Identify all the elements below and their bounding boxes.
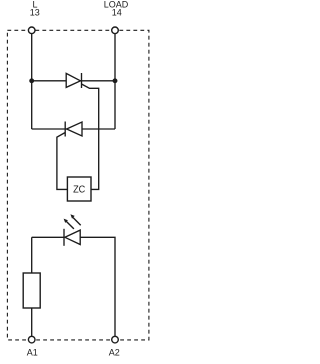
resistor R1 — [23, 273, 40, 308]
wire: resistor to terminal A1 — [31, 308, 33, 340]
wire: LED row right to A2 rail — [80, 237, 115, 339]
wire: left drop from LED row to resistor — [31, 237, 33, 273]
svg-text:ZC: ZC — [73, 183, 86, 195]
svg-text:A1: A1 — [27, 348, 38, 358]
enclosure dashed boundary — [7, 30, 149, 340]
LED emission arrow 2 — [70, 214, 80, 225]
svg-text:13: 13 — [30, 8, 40, 18]
wire: right rail from terminal 14 down to lower SCR row — [114, 30, 116, 129]
svg-text:14: 14 — [112, 8, 122, 18]
thyristor SCR1 (upper, pointing right) — [66, 73, 81, 88]
LED D1 (pointing left) — [64, 229, 80, 246]
terminal L/13 — [28, 27, 35, 34]
svg-text:A2: A2 — [109, 348, 120, 358]
wire: SCR1 gate lead down to ZC — [82, 84, 99, 189]
node: junction on right rail — [113, 78, 118, 83]
thyristor SCR2 (lower, pointing left) — [65, 122, 82, 137]
wire: left rail from terminal 13 down to lower SCR row — [31, 30, 33, 129]
zero-cross detector box ZC — [67, 177, 91, 201]
wire: lower SCR row — [32, 128, 115, 130]
wire: upper SCR row — [32, 80, 115, 82]
wire: SCR2 gate lead down to ZC — [57, 133, 68, 190]
terminal A2 — [112, 336, 119, 343]
LED emission arrow 1 — [64, 219, 74, 229]
terminal A1 — [28, 336, 35, 343]
wire: LED row left — [32, 236, 64, 238]
terminal LOAD/14 — [112, 27, 119, 34]
node: junction on left rail — [29, 78, 34, 83]
